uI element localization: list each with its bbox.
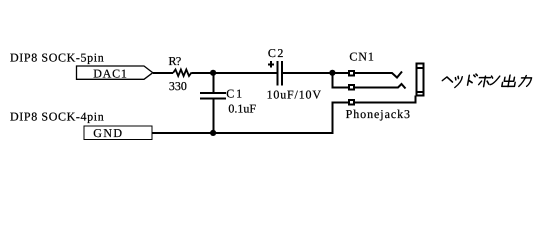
- wire resistor to C2: [192, 72, 277, 74]
- junction node at C1 branch: [210, 70, 216, 76]
- svg-text:C1: C1: [226, 87, 244, 101]
- capacitor C1: [200, 74, 256, 133]
- capacitor C2 polarized: [267, 46, 322, 101]
- annotation katakana do: [468, 74, 478, 85]
- svg-text:R?: R?: [169, 54, 181, 68]
- jack tip contact wire with spring: [355, 72, 402, 78]
- net flag GND: [84, 126, 152, 140]
- junction node bottom rail: [210, 130, 216, 136]
- bottom rail wire from GND to pin3: [153, 103, 349, 134]
- connector CN1 pin 2: [349, 85, 354, 90]
- wire C2 to CN1 pin1: [283, 72, 348, 74]
- junction node at CN1 branch: [329, 70, 335, 76]
- svg-text:DAC1: DAC1: [93, 67, 128, 81]
- annotation kanji shutsu (out): [502, 75, 517, 87]
- connector CN1 pin 3: [349, 100, 354, 105]
- wire flag tip to resistor: [153, 72, 173, 74]
- svg-text:10uF/10V: 10uF/10V: [267, 87, 322, 101]
- resistor R1: [169, 54, 192, 93]
- svg-text:C2: C2: [268, 46, 285, 60]
- annotation katakana ho: [478, 76, 491, 87]
- svg-text:0.1uF: 0.1uF: [228, 102, 256, 116]
- svg-text:GND: GND: [93, 126, 123, 140]
- svg-text:DIP8 SOCK-5pin: DIP8 SOCK-5pin: [10, 50, 104, 64]
- connector CN1 pin 1: [349, 71, 354, 76]
- wire branch down to pin2: [332, 73, 348, 88]
- annotation katakana n: [490, 76, 500, 85]
- svg-text:330: 330: [169, 79, 187, 93]
- jack sleeve wire: [355, 96, 416, 103]
- svg-text:Phonejack3: Phonejack3: [346, 107, 411, 121]
- net flag DAC1: [77, 66, 153, 81]
- annotation kanji ryoku (power): [519, 76, 532, 87]
- svg-text:DIP8 SOCK-4pin: DIP8 SOCK-4pin: [10, 110, 104, 124]
- annotation katakana small-tsu: [454, 76, 463, 87]
- svg-text:CN1: CN1: [349, 50, 374, 64]
- jack body: [417, 64, 424, 96]
- annotation katakana He: [442, 77, 453, 82]
- jack ring contact wire with spring: [355, 84, 406, 89]
